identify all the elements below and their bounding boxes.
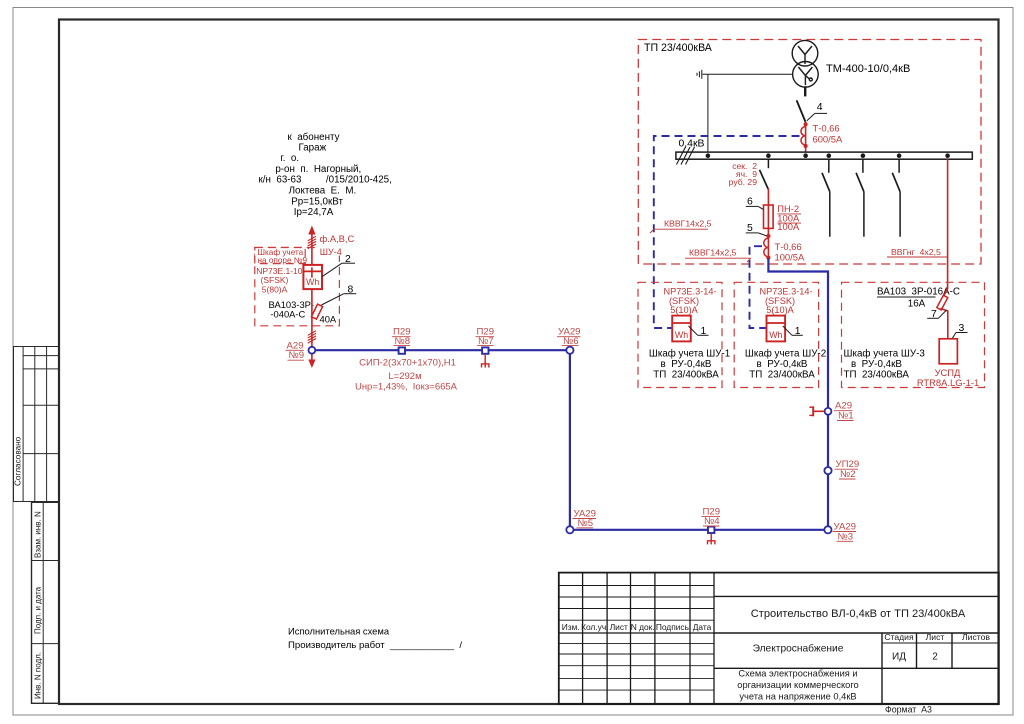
drop wire to node 9	[311, 327, 313, 347]
cabinet ШУ-2 dashed box	[734, 282, 818, 387]
cabinet ШУ-1 dashed box	[638, 282, 722, 387]
cable label КВВГ14х2,5 upper	[650, 219, 712, 234]
busbar junction dots	[706, 153, 950, 158]
busbar 0,4кВ	[676, 152, 972, 159]
svg-text:N док.: N док.	[631, 622, 655, 632]
svg-text:№2: №2	[840, 469, 856, 480]
feeder switch сек2 blade	[760, 170, 769, 190]
revision rows	[559, 586, 714, 691]
svg-text:Инв. N подл.: Инв. N подл.	[34, 652, 43, 699]
svg-text:Шкаф учета ШУ-1: Шкаф учета ШУ-1	[649, 349, 730, 360]
spare feeder switch 3	[892, 159, 900, 237]
svg-text:2: 2	[932, 652, 938, 663]
stage headers	[884, 632, 990, 642]
main stamp partitions	[714, 596, 999, 704]
measuring circuit dashed wire to ШУ-1	[654, 136, 800, 328]
label А29 №1	[834, 401, 854, 422]
svg-text:ИД: ИД	[892, 652, 906, 663]
svg-text:ТП 23/400кВА: ТП 23/400кВА	[844, 370, 910, 381]
svg-text:Uнр=1,43%, Iокз=665А: Uнр=1,43%, Iокз=665А	[355, 382, 458, 393]
node УА29 №6	[566, 347, 573, 354]
fuse ПН-2 100А	[764, 204, 774, 230]
wire switch to fuse	[767, 189, 769, 205]
svg-text:Лист: Лист	[926, 632, 945, 642]
CT1 label	[813, 123, 843, 145]
svg-text:ТП 23/400кВА: ТП 23/400кВА	[644, 42, 713, 54]
svg-text:ВВГнг 4х2,5: ВВГнг 4х2,5	[891, 247, 941, 257]
source tie mark at А29 №1	[809, 406, 824, 416]
callout 2	[322, 254, 355, 277]
cabinet ШУ-1 caption	[649, 349, 730, 381]
svg-text:к/н 63-63 /015/2010-4: к/н 63-63 /015/2010-425,	[259, 175, 392, 186]
grounding drop below node 9	[311, 353, 313, 362]
svg-text:4: 4	[817, 102, 823, 113]
svg-text:L=292м: L=292м	[388, 371, 421, 382]
node А29 №1	[825, 408, 832, 415]
svg-text:Листов: Листов	[962, 632, 990, 642]
svg-text:Wh: Wh	[769, 330, 782, 340]
line node6 to node5	[569, 354, 571, 526]
meter type label NP73E.1-10	[256, 266, 303, 294]
ground electrode at П29 №4	[707, 533, 716, 544]
breaker QF8 symbol	[311, 304, 322, 319]
svg-text:в РУ-0,4кВ: в РУ-0,4кВ	[851, 359, 902, 370]
svg-text:Т-0,66: Т-0,66	[775, 241, 802, 252]
CT1 Т-0,66 600/5А	[801, 122, 808, 153]
svg-text:Iр=24,7А: Iр=24,7А	[294, 207, 334, 218]
wire meter to breaker	[311, 290, 313, 327]
svg-text:учета на напряжение 0,4кВ: учета на напряжение 0,4кВ	[739, 692, 856, 702]
svg-text:№5: №5	[578, 518, 594, 529]
svg-text:Локтева Е. М.: Локтева Е. М.	[289, 185, 357, 196]
svg-text:ТП 23/400кВА: ТП 23/400кВА	[653, 370, 719, 381]
svg-text:№9: №9	[289, 350, 305, 361]
svg-text:-040А-С: -040А-С	[270, 308, 305, 319]
busbar hatch marks	[677, 147, 695, 165]
PEN drop wire to busbar	[707, 74, 709, 152]
transformer LV stub	[804, 86, 806, 96]
svg-text:100/5А: 100/5А	[775, 252, 805, 263]
svg-text:Дата: Дата	[693, 622, 712, 632]
breaker QF7 symbol	[937, 288, 948, 339]
svg-text:5(80)А: 5(80)А	[262, 284, 288, 294]
svg-text:на опоре №9: на опоре №9	[258, 256, 308, 265]
svg-text:Подпись: Подпись	[656, 622, 690, 632]
meter type label ШУ-1	[663, 287, 716, 316]
cabinet label ШУ-4	[317, 247, 342, 258]
meter Wh ШУ-2	[767, 316, 786, 342]
svg-text:Стадия: Стадия	[884, 632, 914, 642]
svg-text:р-он п. Нагорный,: р-он п. Нагорный,	[275, 164, 361, 175]
svg-text:600/5А: 600/5А	[813, 134, 843, 145]
svg-text:№1: №1	[838, 411, 854, 422]
cable label ВВГнг 4х2,5	[887, 247, 948, 257]
svg-text:5: 5	[747, 223, 753, 234]
meter Wh ШУ-4	[303, 265, 322, 289]
spare feeder switch 1	[822, 159, 830, 237]
TITLEBLOCK	[559, 573, 999, 715]
svg-text:руб. 29: руб. 29	[729, 177, 758, 187]
wire count marks	[308, 331, 316, 343]
stage values	[892, 652, 938, 663]
svg-text:Схема электроснабжения и: Схема электроснабжения и	[738, 669, 857, 679]
NETWORK	[286, 327, 860, 545]
svg-text:№4: №4	[704, 516, 720, 527]
svg-text:Строительство ВЛ-0,4кВ от ТП 2: Строительство ВЛ-0,4кВ от ТП 23/400кВА	[751, 608, 966, 620]
label УП29 №2	[835, 459, 860, 480]
svg-text:СИП-2(3х70+1х70),Н1: СИП-2(3х70+1х70),Н1	[359, 358, 456, 369]
line node5 to node3	[574, 529, 825, 531]
CT2 Т-0,66 100/5А	[764, 230, 771, 261]
svg-text:Рр=15,0кВт: Рр=15,0кВт	[291, 196, 343, 207]
svg-text:Производитель работ _________: Производитель работ ____________ /	[288, 640, 462, 651]
feeder switch сек2 stub	[767, 159, 769, 168]
substation enclosure ТП 23/400кВА dashed	[638, 40, 981, 265]
svg-text:5(10)А: 5(10)А	[670, 305, 698, 315]
measuring circuit dashed wire to ШУ-2	[750, 246, 766, 328]
svg-text:КВВГ14х2,5: КВВГ14х2,5	[689, 248, 737, 258]
svg-text:Формат А3: Формат А3	[885, 705, 932, 715]
sheet title 3 lines	[737, 669, 858, 702]
svg-text:ШУ-4: ШУ-4	[320, 247, 342, 257]
breaker type label ВА103 3Р-016А-С	[877, 287, 960, 310]
node УА29 №3	[824, 526, 831, 533]
svg-text:Шкаф учета ШУ-3: Шкаф учета ШУ-3	[844, 349, 926, 360]
red feeder wire to ШУ-3	[947, 159, 949, 289]
spare feeder switch 2	[856, 159, 864, 237]
svg-text:Исполнительная схема: Исполнительная схема	[288, 626, 390, 637]
cabinet ШУ-2 caption	[745, 349, 826, 381]
SHUBOXES	[638, 282, 985, 388]
svg-text:Изм.: Изм.	[562, 622, 580, 632]
meter Wh ШУ-1	[672, 316, 691, 342]
label А29 №9	[286, 340, 305, 361]
node П29 №8 square	[399, 347, 405, 353]
svg-text:ТМ-400-10/0,4кВ: ТМ-400-10/0,4кВ	[826, 63, 910, 75]
node УА29 №5	[566, 526, 573, 533]
cabinet ШУ-4 dashed box	[255, 248, 340, 326]
label П29 №4	[702, 506, 721, 527]
svg-text:КВВГ14х2,5: КВВГ14х2,5	[664, 219, 712, 229]
consumer info text block	[259, 132, 392, 218]
label П29 №7	[476, 327, 495, 347]
node УП29 №2	[824, 467, 831, 474]
meter type label ШУ-2	[759, 287, 812, 316]
label УА29 №6	[557, 327, 581, 347]
CT2 label	[775, 241, 805, 263]
overhead line node9 to node6	[315, 349, 566, 351]
svg-text:№3: №3	[838, 531, 854, 542]
svg-text:Подп. и дата: Подп. и дата	[34, 586, 43, 634]
svg-text:Согласовано: Согласовано	[14, 436, 23, 486]
svg-text:г. о.: г. о.	[280, 153, 299, 164]
title block outline	[559, 573, 999, 704]
ground symbol at transformer neutral	[697, 70, 702, 79]
arrow up to consumer	[308, 226, 315, 235]
node П29 №4 square	[708, 527, 714, 533]
svg-text:Wh: Wh	[306, 277, 319, 287]
svg-text:5(10)А: 5(10)А	[766, 305, 794, 315]
phase marks ф.А,В,С	[308, 236, 316, 248]
cabinet name sub-box	[255, 248, 308, 266]
callout 1 for ШУ-1 meter	[689, 326, 709, 337]
svg-text:в РУ-0,4кВ: в РУ-0,4кВ	[661, 359, 712, 370]
callout 5	[746, 223, 767, 236]
svg-text:Взам. инв. N: Взам. инв. N	[34, 511, 43, 558]
svg-text:100А: 100А	[777, 221, 800, 232]
cable label СИП-2	[355, 358, 458, 393]
TPBOX	[638, 40, 981, 527]
svg-text:0,4кВ: 0,4кВ	[679, 139, 705, 150]
svg-text:ф.А,В,С: ф.А,В,С	[320, 233, 355, 244]
svg-text:Гараж: Гараж	[298, 142, 326, 153]
callout 3	[952, 323, 968, 339]
approval table Согласовано	[14, 347, 60, 502]
ground electrode at П29 №7	[481, 354, 490, 368]
cell label сек яч руб	[729, 161, 758, 187]
svg-text:ТП 23/400кВА: ТП 23/400кВА	[749, 370, 815, 381]
svg-text:RTR8A.LG-1-1: RTR8A.LG-1-1	[917, 377, 979, 388]
switch QS1 blade	[797, 100, 806, 122]
callout 1 for ШУ-2 meter	[783, 326, 803, 337]
riser wire to consumer	[311, 232, 313, 264]
breaker type label ВА103-3Р	[269, 299, 337, 324]
svg-text:Кол.уч.: Кол.уч.	[581, 622, 608, 632]
svg-text:6: 6	[747, 197, 753, 208]
label П29 №8	[392, 327, 411, 347]
svg-text:Электроснабжение: Электроснабжение	[753, 643, 844, 655]
transformer T1 ТМ-400-10/0,4кВ	[792, 40, 818, 87]
svg-text:Wh: Wh	[675, 330, 688, 340]
svg-text:Лист: Лист	[610, 622, 628, 632]
callout 7	[927, 309, 946, 320]
svg-text:40А: 40А	[320, 313, 337, 324]
callout 4	[807, 102, 827, 121]
cable label КВВГ14х2,5 lower	[685, 248, 751, 263]
svg-text:в РУ-0,4кВ: в РУ-0,4кВ	[757, 359, 808, 370]
fuse labels	[777, 203, 801, 232]
POLE9	[255, 132, 392, 368]
svg-text:Т-0,66: Т-0,66	[813, 123, 840, 134]
arrow down ground	[308, 360, 315, 369]
svg-text:16А: 16А	[908, 299, 926, 310]
MISCTEXT	[288, 626, 462, 652]
node П29 №7 square	[482, 347, 488, 353]
node А29 №9	[309, 347, 316, 354]
data collector УСПД box	[939, 339, 957, 364]
svg-text:Шкаф учета ШУ-2: Шкаф учета ШУ-2	[745, 349, 826, 360]
side column cells Взам/Подп/Инв	[32, 502, 60, 703]
callout 6	[746, 197, 764, 210]
LEFTTABLES	[14, 347, 60, 704]
revision columns	[583, 573, 714, 704]
callout 8	[321, 285, 356, 306]
svg-text:организации коммерческого: организации коммерческого	[737, 680, 858, 690]
label УА29 №5	[573, 508, 597, 529]
header labels Изм Кол.уч Лист Ндок Подпись Дата	[562, 622, 712, 632]
neutral wire to ground	[703, 73, 793, 75]
cabinet ШУ-3 dashed box	[842, 282, 985, 387]
УСПД labels	[917, 367, 979, 388]
cabinet ШУ-3 caption	[844, 349, 926, 381]
label УА29 №3	[833, 521, 857, 542]
blue feeder wire CT2 to А29 N1	[768, 259, 828, 527]
